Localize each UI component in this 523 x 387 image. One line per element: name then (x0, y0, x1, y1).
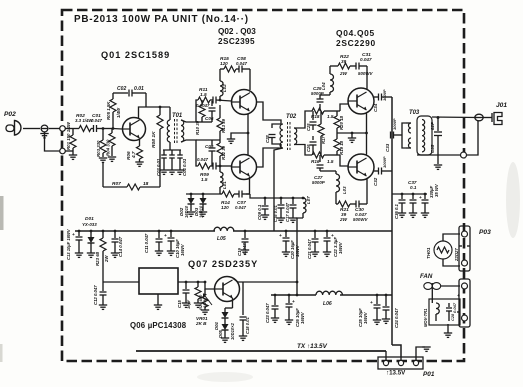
ground feedthrough (40, 133, 48, 135)
capacitor C30 0.047 500WV (350, 203, 356, 205)
wire output bottom (417, 154, 461, 156)
svg-text:1.5: 1.5 (327, 114, 334, 119)
ground D02 (187, 211, 195, 213)
svg-text:C25: C25 (306, 123, 311, 131)
inductor L06 (316, 291, 342, 295)
svg-text:1000P: 1000P (382, 156, 387, 168)
resistor R24 680 (197, 282, 199, 287)
node lower base (219, 165, 222, 168)
wire T02 center feed (274, 148, 283, 231)
ground C16 (277, 217, 285, 219)
transformer T02 (280, 124, 283, 148)
svg-text:1.5: 1.5 (200, 92, 207, 98)
svg-text:R07: R07 (112, 181, 121, 187)
transistor Q02 (232, 90, 257, 115)
capacitor C15 (185, 282, 187, 289)
capacitor C29 5000P (319, 104, 321, 111)
wire top feedback rail (219, 69, 221, 72)
ground C23 (271, 317, 279, 319)
transistor Q05 (348, 154, 374, 180)
wire T02 sec bottom (294, 145, 312, 156)
resistor R09 1.5 (198, 163, 210, 169)
fan motor symbol (424, 283, 432, 290)
svg-text:C14 0.047: C14 0.047 (118, 236, 123, 257)
svg-text:1.5: 1.5 (327, 159, 334, 164)
capacitor C36 0.1 (401, 194, 403, 199)
wire to Q05 base (340, 155, 349, 166)
node C35 tap (437, 116, 440, 119)
resistor R06 4.7 emitter (139, 139, 141, 147)
ground C14 (111, 252, 119, 254)
resistor R08 1K (159, 107, 161, 115)
resistor R21 39 2W (336, 203, 338, 205)
capacitor C19 0.047 (244, 231, 246, 238)
svg-text:2K B: 2K B (195, 321, 207, 326)
svg-text:1000P: 1000P (382, 89, 387, 101)
resistor R17 (320, 111, 322, 124)
inductor L05 (214, 227, 234, 231)
node shield pass-through (60, 148, 66, 154)
ground D01 (87, 252, 95, 254)
node rail tap (296, 294, 299, 297)
svg-text:C28: C28 (450, 313, 455, 321)
node collector R08 (159, 106, 162, 109)
svg-text:C35: C35 (430, 144, 435, 153)
wire R23 to Q06 (103, 281, 139, 283)
svg-text:C09 0.1: C09 0.1 (257, 204, 262, 220)
capacitor C22 3.3uF 16WV (326, 231, 328, 237)
svg-text:120: 120 (221, 205, 229, 210)
svg-text:2W: 2W (339, 71, 348, 76)
node base junction (102, 127, 105, 130)
svg-text:R16: R16 (311, 159, 320, 164)
ground near P01 (416, 347, 425, 357)
ground R24 (194, 302, 202, 304)
svg-text:5000P: 5000P (312, 180, 325, 185)
svg-text:C26: C26 (306, 144, 311, 152)
resistor R02 3.3 (79, 126, 91, 132)
wire R07 left stub (102, 163, 104, 187)
svg-text:C33: C33 (385, 143, 390, 152)
svg-text:2W: 2W (104, 255, 109, 263)
suppressor MOV-TR1 box (429, 299, 460, 325)
svg-text:R23 68: R23 68 (95, 251, 100, 266)
wire input to feedthrough (35, 128, 40, 130)
decoupling sub rail (392, 193, 427, 195)
ground center tap (348, 137, 356, 139)
svg-text:+: + (370, 301, 373, 306)
svg-text:0.047: 0.047 (91, 118, 103, 123)
wire MOV box to connector (457, 311, 460, 313)
svg-text:C04 0.01: C04 0.01 (182, 158, 187, 176)
svg-text:D04: D04 (214, 322, 219, 330)
svg-text:120: 120 (220, 61, 228, 66)
wire C31 to Q04 collector (366, 66, 368, 89)
ground C11 (155, 250, 163, 252)
capacitor C.0047 lower (210, 165, 213, 167)
resistor R03 330 (102, 129, 104, 141)
wire R02 to C01 (91, 128, 93, 130)
svg-text:500WV: 500WV (353, 217, 368, 222)
svg-text:Q02 . Q03: Q02 . Q03 (218, 27, 256, 36)
wire to Q04 base (340, 104, 349, 111)
capacitor C34 1000P (374, 96, 378, 98)
transformer T03 (406, 122, 411, 124)
transistor Q01 (123, 118, 146, 141)
svg-text:P03: P03 (479, 229, 491, 236)
svg-text:C06: C06 (205, 116, 214, 121)
svg-text:R19 18: R19 18 (339, 140, 344, 155)
capacitor C31 0.047 500WV (350, 65, 356, 67)
svg-text:+: + (279, 234, 282, 239)
svg-text:35 WV: 35 WV (434, 183, 439, 197)
diode D01 YX-033 zener (90, 231, 92, 237)
ground R01 (69, 154, 77, 156)
svg-text:16WV: 16WV (180, 243, 185, 256)
svg-text:1000P: 1000P (392, 118, 397, 130)
svg-text:L04: L04 (321, 82, 326, 90)
wire Q07 emitter diodes (232, 298, 234, 308)
capacitor C32 1000P (374, 170, 378, 172)
connector J01 (491, 113, 493, 122)
feedthrough J01 line (475, 114, 483, 121)
wire feedthrough to border (49, 128, 60, 130)
svg-text:R13 39: R13 39 (221, 118, 226, 133)
ground C20 (282, 251, 290, 253)
grounds below T01 cluster (160, 169, 168, 171)
transistor Q03 (232, 155, 257, 180)
capacitor C14 0.047 (114, 231, 116, 238)
wire Q06 to Q07 base (178, 281, 205, 283)
capacitor C37 0.1 (412, 194, 414, 199)
svg-text:0.0047: 0.0047 (196, 103, 210, 108)
ground C17 (289, 217, 297, 219)
svg-text:R17: R17 (321, 136, 326, 144)
svg-text:4.7: 4.7 (131, 151, 136, 159)
capacitor C23 0.047 (274, 295, 276, 305)
wire Q03 collector to T02 (257, 144, 282, 167)
svg-text:C13 10µF 16WV: C13 10µF 16WV (66, 228, 71, 260)
diode D02 16D10 (190, 194, 192, 198)
ground C19 (241, 249, 249, 251)
svg-text:C05: C05 (205, 144, 214, 149)
wire shield to R01 (65, 150, 73, 152)
svg-text:18: 18 (143, 181, 149, 187)
bias rail (186, 193, 220, 195)
svg-text:0.047: 0.047 (197, 157, 209, 162)
capacitor C08 0.047 (236, 68, 239, 70)
transformer T01 (169, 107, 171, 120)
ground C38 (421, 212, 429, 214)
ground C21 (311, 251, 319, 253)
svg-text:82P: 82P (430, 122, 435, 130)
svg-text:Q07 2SD235Y: Q07 2SD235Y (188, 259, 258, 269)
capacitor C.0047 upper (210, 99, 213, 101)
svg-text:0.047: 0.047 (452, 302, 457, 313)
capacitor C26 10uF 16WV (288, 295, 290, 303)
potentiometer VR01 2KB (204, 289, 206, 296)
capacitor C25 interbase (312, 111, 314, 120)
capacitor C27 5000P (319, 155, 321, 162)
svg-text:YX-033: YX-033 (82, 222, 97, 227)
svg-text:C24 0.047: C24 0.047 (394, 308, 399, 328)
capacitor C21 0.047 (314, 231, 316, 238)
inductor L03 (330, 170, 336, 172)
wire Q03 feedback bottom (246, 177, 250, 195)
resistor R07 18 feedback (103, 186, 127, 188)
capacitor C38 330uF 35WV (424, 194, 426, 199)
svg-text:C28: C28 (265, 135, 270, 143)
capacitor C12 0.047 (102, 282, 104, 291)
regulator Q06 box (139, 268, 178, 294)
capacitor C01 0.047 (93, 125, 95, 132)
connector FAN plug (459, 279, 470, 327)
diode D04 10D10 (222, 312, 229, 318)
ground D04 D05 (221, 337, 229, 339)
resistor R04 330 (111, 129, 113, 134)
diode D03 16D10 (202, 194, 204, 198)
wire shield return (466, 121, 478, 155)
inductor L02 (219, 96, 221, 100)
resistor R23 68 2W (102, 231, 104, 238)
svg-text:+: + (292, 300, 295, 305)
svg-text:L02: L02 (222, 84, 227, 92)
svg-text:Q04.Q05: Q04.Q05 (336, 28, 375, 38)
capacitor C16 0.01 (280, 198, 282, 204)
resistor R14 120 (220, 193, 222, 195)
connector P01 box (378, 357, 423, 369)
resistor R05 1.5K (112, 112, 114, 129)
svg-text:L03: L03 (342, 186, 347, 194)
svg-text:C21 0.047: C21 0.047 (307, 239, 312, 259)
svg-text:2W: 2W (339, 217, 348, 222)
ground C26 (285, 319, 293, 321)
scan smudge left edge (0, 196, 4, 230)
svg-text:+: + (419, 196, 422, 201)
wire C08 to Q02 collector (249, 69, 251, 90)
inductor L01 (219, 166, 221, 172)
svg-text:C23 0.047: C23 0.047 (265, 303, 270, 323)
svg-text:L06: L06 (323, 301, 332, 307)
wire fan to connector (441, 285, 460, 287)
ground C24 (382, 318, 390, 320)
svg-text:L05: L05 (217, 236, 226, 242)
svg-text:+: + (72, 233, 75, 238)
ground R04 (108, 156, 116, 158)
capacitor C20 16uF 16WV (285, 231, 287, 237)
node upper base (219, 99, 222, 102)
ground C36 (398, 212, 406, 214)
decoupling cluster below T01 (163, 149, 181, 151)
resistor R18 1.5 (312, 108, 324, 114)
capacitor C18 0.01 (242, 282, 244, 315)
svg-text:C17 0.047: C17 0.047 (285, 202, 290, 222)
feedthrough capacitor input (41, 125, 48, 132)
wire T01 secondary bottom (181, 140, 198, 166)
capacitor C02 0.01 loop (113, 92, 128, 94)
capacitor C09 0.1 (264, 198, 266, 205)
resistor R16 1.5 (312, 152, 324, 158)
svg-text:0.047: 0.047 (235, 205, 247, 210)
transistor Q04 (348, 88, 374, 114)
bottom supply rail (136, 350, 386, 352)
svg-text:C18 0.01: C18 0.01 (245, 317, 250, 334)
svg-text:2SC2290: 2SC2290 (336, 38, 376, 48)
svg-text:TX ↑13.5V: TX ↑13.5V (297, 343, 328, 350)
svg-text:C11 0.047: C11 0.047 (144, 233, 149, 253)
wire T03 left top (402, 123, 406, 135)
capacitor C33 1000P (390, 132, 392, 139)
ground R03 (99, 157, 107, 159)
ground C35 (437, 155, 439, 164)
svg-text:R03 330: R03 330 (96, 140, 101, 157)
junction dots rails (78, 230, 81, 233)
svg-text:L01: L01 (222, 181, 227, 189)
main supply rail (75, 230, 215, 232)
svg-text:2SC2395: 2SC2395 (218, 37, 255, 46)
capacitor C25 10uF 16WV (376, 295, 378, 304)
svg-text:1.5: 1.5 (201, 177, 208, 182)
capacitor C17 0.047 (292, 198, 294, 204)
wire riser to P01 (385, 351, 387, 357)
svg-text:5000P: 5000P (311, 91, 324, 96)
svg-text:J01: J01 (496, 102, 507, 109)
svg-text:PB-2013 100W PA UNIT (No.14··: PB-2013 100W PA UNIT (No.14··) (74, 14, 249, 25)
connector P02 plug (6, 125, 14, 132)
svg-text:+: + (164, 234, 167, 239)
wire Q02 collector to T02 (249, 92, 252, 94)
ground C18 (239, 335, 247, 337)
svg-text:P01: P01 (423, 371, 435, 378)
resistor R01 150 1/4W (72, 129, 74, 136)
resistor R10 39 (201, 100, 203, 105)
wire Q07 collector (233, 279, 297, 283)
wire C30 to Q05 collector (366, 179, 368, 204)
wire Q02 Q03 emitter tie (247, 114, 249, 154)
resistor R20 18 (336, 111, 338, 116)
capacitor C11 0.047 (158, 231, 160, 238)
svg-text:16WV: 16WV (363, 311, 368, 324)
svg-text:0.047: 0.047 (360, 57, 372, 62)
capacitor C05 (211, 140, 213, 146)
svg-text:T03: T03 (409, 110, 420, 116)
svg-text:R04 330: R04 330 (106, 139, 111, 156)
wire C06 tie (196, 121, 212, 123)
capacitor C13 10uF 16WV (78, 231, 80, 236)
svg-text:R05 1.5K: R05 1.5K (106, 101, 111, 120)
wire T01 primary bottom (169, 142, 171, 150)
capacitor C06 (211, 101, 213, 106)
sub rail (258, 197, 305, 199)
ground Q06 (157, 294, 159, 305)
svg-text:10D10×2: 10D10×2 (230, 322, 235, 340)
resistor R12 39 (219, 138, 221, 143)
resistor R11 1.5 (198, 97, 210, 103)
resistor R19 18 (336, 133, 338, 139)
svg-text:R01 150 1/4W: R01 150 1/4W (66, 121, 71, 150)
ground R06 (135, 161, 143, 163)
enclosure dashed border of PA unit (62, 10, 464, 361)
thermistor TH01 (434, 241, 452, 259)
wire shield loop (45, 133, 60, 151)
wire T01 secondary top (181, 100, 198, 122)
svg-text:R12 39: R12 39 (221, 145, 226, 160)
wire mid tie (196, 139, 220, 141)
wire T03 left bottom (402, 135, 406, 148)
wire output top (432, 116, 477, 119)
svg-text:MOV-TR1: MOV-TR1 (423, 308, 428, 327)
inductor L07 (303, 198, 306, 213)
svg-text:T02: T02 (286, 114, 297, 120)
svg-text:C36 0.1: C36 0.1 (394, 203, 399, 219)
svg-text:22Ω27: 22Ω27 (454, 248, 459, 262)
svg-text:R08 1K: R08 1K (151, 131, 157, 148)
resistor R22 39 2W (330, 65, 338, 67)
svg-text:0.01: 0.01 (134, 86, 144, 92)
connector P03 (459, 226, 470, 271)
svg-text:T01: T01 (172, 113, 182, 119)
ground emitter tie Q02 Q03 (231, 133, 248, 139)
svg-text:R20 18: R20 18 (339, 115, 344, 130)
wire border to R02 (65, 128, 79, 130)
svg-text:+: + (457, 294, 460, 299)
svg-text:C03 0.01: C03 0.01 (156, 158, 161, 176)
svg-text:FAN: FAN (420, 273, 433, 280)
node shield pass (461, 152, 467, 158)
svg-text:L07: L07 (306, 196, 311, 204)
svg-text:C15: C15 (177, 300, 182, 308)
capacitor C07 0.047 (234, 193, 239, 195)
svg-text:C12 0.047: C12 0.047 (93, 285, 98, 305)
wire Q01 collector (139, 107, 171, 119)
svg-text:16WV: 16WV (295, 244, 300, 257)
ground C09 (261, 214, 269, 216)
svg-text:C34: C34 (373, 103, 378, 112)
bias output rail (271, 294, 316, 296)
ground C22 (323, 251, 331, 253)
supply riser (391, 97, 393, 345)
svg-text:16WV: 16WV (338, 241, 343, 254)
wire bias to subrail (250, 194, 258, 198)
ground C25 (373, 319, 381, 321)
svg-text:C32: C32 (373, 177, 378, 186)
wire TH01 to P03 (443, 234, 460, 241)
svg-text:39: 39 (341, 59, 347, 64)
node input pass-through (60, 126, 66, 132)
svg-text:D05: D05 (218, 330, 223, 338)
svg-text:16WV: 16WV (300, 311, 305, 324)
ground C10 (167, 250, 175, 252)
svg-text:Q01 2SC1589: Q01 2SC1589 (101, 50, 170, 60)
ground MOV (447, 324, 449, 333)
wire Q04 Q05 emitter tie (366, 114, 368, 155)
capacitor C10 16uF 16WV (170, 231, 172, 237)
diode D05 10D10 (222, 324, 229, 330)
capacitor C28 across primary (272, 124, 281, 128)
capacitor C26i interbase (312, 136, 314, 140)
capacitor C24 0.047 (385, 295, 387, 306)
resistor R13 39 on base line (219, 105, 221, 118)
svg-text:P02: P02 (4, 111, 16, 118)
ground C12 (99, 304, 107, 306)
svg-text:0.1: 0.1 (410, 185, 417, 190)
svg-text:0.047: 0.047 (236, 61, 248, 66)
ground C15 (182, 302, 190, 304)
resistor R15 120 (224, 66, 236, 72)
svg-text:Q06 µPC14308: Q06 µPC14308 (130, 321, 187, 330)
ground C13 (75, 252, 83, 254)
wire center tap ground (337, 132, 367, 134)
